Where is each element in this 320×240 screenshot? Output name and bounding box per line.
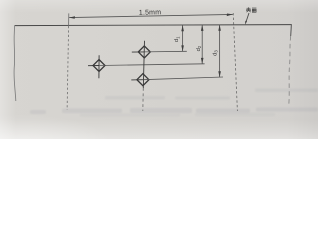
extension line left (dashed) for 1.5mm xyxy=(68,13,70,26)
extension line from top flaw to d1 xyxy=(144,50,187,53)
label surface char 1 (biao), drawn strokes xyxy=(246,7,251,12)
surface top line xyxy=(15,25,292,26)
vertical centerline lower dashed part xyxy=(142,88,145,111)
dimension line d2 xyxy=(201,25,204,64)
svg-text:1.5mm: 1.5mm xyxy=(139,9,162,17)
dimension line d1 xyxy=(181,25,184,51)
right part edge (wavy break line) xyxy=(290,24,293,36)
flaw marker bottom middle (diamond with centerlines) xyxy=(131,74,149,86)
svg-text:d1: d1 xyxy=(174,36,180,42)
arrow left of 1.5mm xyxy=(69,16,75,19)
arrow right of 1.5mm xyxy=(227,14,233,17)
vertical centerline through middle flaws xyxy=(143,41,144,88)
extension line from left flaw to d2 xyxy=(99,64,205,66)
label surface char 2 (mian), drawn strokes xyxy=(252,8,256,12)
extension line from bottom flaw to d3 xyxy=(143,77,223,80)
flaw marker left (diamond with centerlines) xyxy=(88,55,105,78)
dimension line d3 xyxy=(218,25,221,77)
extension line right (dashed) for 1.5mm xyxy=(233,13,237,111)
svg-text:d2: d2 xyxy=(196,45,202,51)
ghost bleed-through text row 2 xyxy=(30,108,318,115)
leader arrow xyxy=(245,21,247,25)
flaw marker top middle (diamond with centerlines) xyxy=(132,46,151,58)
left part edge (wavy break line) xyxy=(14,26,16,101)
dimension line 1.5mm xyxy=(69,14,233,17)
ghost bleed-through text row 1 xyxy=(105,89,318,100)
leader line for surface label xyxy=(246,13,249,23)
svg-text:d3: d3 xyxy=(212,50,218,56)
ghost bleed-through text row 3 (faint) xyxy=(80,113,275,117)
